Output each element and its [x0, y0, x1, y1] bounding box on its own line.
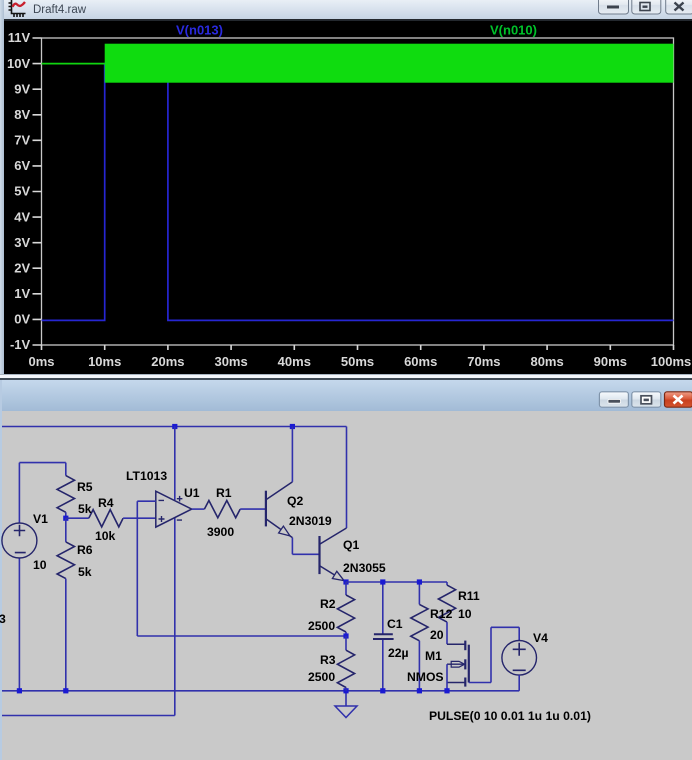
- plot window minimize button: [599, 0, 629, 14]
- plot window left border: [0, 0, 4, 374]
- wire R4 to op-amp + input: [123, 517, 156, 519]
- capacitor C1: [382, 582, 384, 634]
- svg-text:Q2: Q2: [287, 494, 303, 508]
- schematic window frame top: [0, 374, 692, 375]
- node R5/R6/R4 junction: [63, 516, 68, 521]
- mosfet M1: [464, 641, 466, 651]
- wire R5 top lead: [65, 463, 67, 476]
- wire Q2 emitter down: [291, 538, 293, 555]
- svg-text:3: 3: [0, 612, 6, 626]
- svg-text:R2: R2: [320, 597, 336, 611]
- wire op-amp output: [192, 508, 205, 510]
- node C1 bottom: [380, 688, 385, 693]
- resistor R11: [446, 582, 448, 585]
- svg-text:R12: R12: [430, 607, 453, 621]
- svg-text:R11: R11: [458, 589, 480, 603]
- resistor R1: [204, 501, 240, 518]
- resistor R5: [57, 476, 74, 513]
- wire R6 top lead: [65, 518, 67, 542]
- svg-text:2500: 2500: [308, 670, 335, 684]
- resistor R6: [57, 542, 74, 579]
- wire R1 to Q2 base: [240, 508, 266, 510]
- voltage source V4: [502, 641, 537, 676]
- y axis ticks: [33, 38, 42, 345]
- resistor R12: [418, 582, 420, 604]
- svg-text:R1: R1: [216, 486, 232, 500]
- schematic window title bar: [0, 380, 692, 411]
- wire top supply rail: [2, 426, 347, 428]
- op-amp U1: [156, 491, 192, 527]
- svg-text:NMOS: NMOS: [407, 670, 444, 684]
- svg-text:R5: R5: [77, 480, 93, 494]
- wire emitter output rail: [346, 581, 447, 583]
- schematic window left border: [0, 380, 2, 760]
- svg-text:22µ: 22µ: [388, 646, 409, 660]
- node R6 bottom on rail: [63, 688, 68, 693]
- wire op-amp V+ supply lead: [174, 427, 176, 501]
- svg-text:10: 10: [458, 607, 472, 621]
- green trace V(n010) oscillation band: [105, 44, 674, 83]
- svg-text:R3: R3: [320, 653, 336, 667]
- wire op-amp V- supply lead down: [174, 518, 176, 716]
- node M1 source on rail: [444, 688, 449, 693]
- resistor R4: [89, 510, 123, 527]
- node ground tap on rail: [343, 688, 348, 693]
- svg-text:C1: C1: [387, 617, 403, 631]
- svg-text:U1: U1: [184, 486, 200, 500]
- svg-text:2500: 2500: [308, 619, 335, 633]
- wire op-amp inverting input: [137, 500, 156, 502]
- svg-text:V4: V4: [533, 631, 548, 645]
- resistor R2: [345, 582, 347, 595]
- node Q1 emitter junction: [343, 579, 348, 584]
- wire feedback vertical: [136, 501, 138, 636]
- wire V1 bottom lead: [18, 558, 20, 691]
- wire M1 gate to V4: [469, 682, 491, 684]
- schematic maximize button: [632, 392, 661, 407]
- wire Q2 collector up to rail: [291, 427, 293, 482]
- plot pane border: [42, 38, 674, 345]
- node junction rail/Q2 collector: [290, 424, 295, 429]
- wire V1 top lead: [18, 463, 20, 523]
- resistor R3: [345, 636, 347, 650]
- wire M1 source/body down to rail: [446, 664, 448, 691]
- wire R6 bottom lead: [65, 579, 67, 691]
- node R12 bottom: [417, 688, 422, 693]
- svg-text:2N3055: 2N3055: [343, 561, 386, 575]
- plot window maximize button: [632, 0, 661, 14]
- plot window title bar: [4, 0, 692, 19]
- svg-text:V1: V1: [33, 512, 48, 526]
- svg-text:Q1: Q1: [343, 538, 359, 552]
- wire V1 to R5: [19, 462, 65, 464]
- node C1 top: [380, 579, 385, 584]
- schematic minimize button: [599, 392, 628, 407]
- x axis ticks: [42, 345, 674, 350]
- wire Q2 emitter to Q1 base: [292, 553, 319, 555]
- blue trace V(n013): [42, 64, 674, 321]
- wire V- return to left edge: [2, 715, 175, 717]
- wire bottom ground rail: [2, 690, 519, 692]
- ground symbol: [345, 691, 347, 706]
- plot window icon: [9, 0, 26, 17]
- node junction rail/op-amp V+: [172, 424, 177, 429]
- transistor Q1: [318, 536, 320, 574]
- plot window close button: [666, 0, 692, 14]
- schematic close button: [665, 392, 692, 407]
- wire junction to R4: [66, 517, 89, 519]
- plot window background: [0, 0, 692, 374]
- green trace V(n010) thin segment at 10V: [42, 63, 105, 65]
- svg-text:10: 10: [33, 558, 47, 572]
- node R12 top: [417, 579, 422, 584]
- svg-text:5k: 5k: [78, 565, 92, 579]
- wire Q1 collector drop from rail: [346, 427, 348, 529]
- voltage source V1: [2, 523, 37, 558]
- svg-text:PULSE(0 10 0.01 1u 1u 0.01): PULSE(0 10 0.01 1u 1u 0.01): [429, 709, 591, 723]
- wire V4 bottom lead: [518, 675, 520, 691]
- wire feedback horizontal to R2/R3 node: [137, 635, 346, 637]
- svg-text:R4: R4: [98, 496, 114, 510]
- svg-text:M1: M1: [425, 649, 442, 663]
- svg-text:20: 20: [430, 628, 444, 642]
- wire V4 top lead: [518, 627, 520, 640]
- schematic canvas: [0, 411, 692, 760]
- svg-text:2N3019: 2N3019: [289, 514, 332, 528]
- node R2/R3 divider junction: [343, 633, 348, 638]
- wire R5 bottom lead: [65, 512, 67, 518]
- svg-text:3900: 3900: [207, 525, 234, 539]
- svg-text:5k: 5k: [78, 502, 92, 516]
- svg-text:R6: R6: [77, 543, 93, 557]
- svg-text:LT1013: LT1013: [126, 469, 167, 483]
- svg-text:10k: 10k: [95, 529, 116, 543]
- node V1 bottom on rail: [17, 688, 22, 693]
- wire R11 bottom to M1 drain: [446, 622, 448, 644]
- transistor Q2: [265, 491, 267, 527]
